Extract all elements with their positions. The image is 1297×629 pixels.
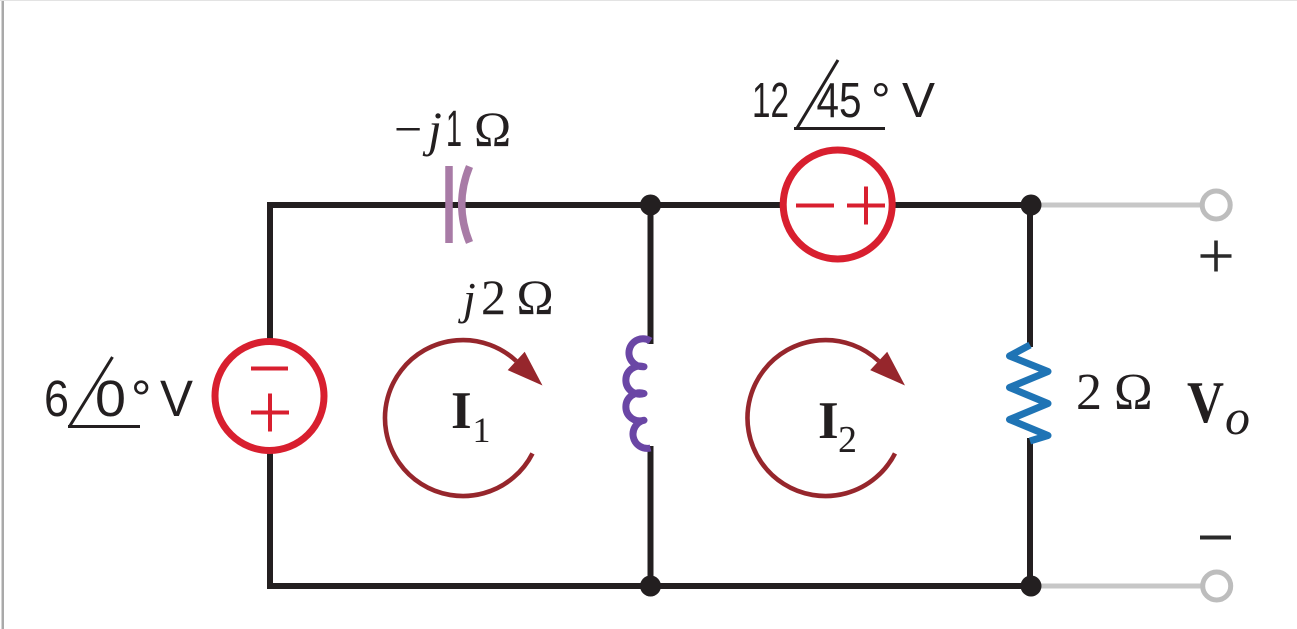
svg-text:−: −: [394, 101, 422, 157]
svg-text:1: 1: [446, 100, 462, 157]
svg-text:V: V: [160, 370, 193, 427]
mesh current I1 arrowhead: [508, 352, 543, 386]
V2 plus sign: [847, 187, 885, 225]
svg-text:45: 45: [817, 74, 862, 128]
voltage source V2 circle: [783, 150, 892, 259]
svg-text:Ω: Ω: [1114, 364, 1153, 421]
svg-text:V: V: [902, 74, 935, 128]
svg-text:0: 0: [95, 370, 126, 427]
angle symbol underline top: [794, 127, 885, 130]
svg-text:I: I: [818, 392, 839, 450]
mesh current I2 arrowhead: [870, 352, 905, 386]
gray output wire top: [1031, 203, 1201, 208]
capacitor C1 right plate arc: [462, 167, 470, 243]
inductor L1 coil: [626, 339, 651, 449]
svg-text:Ω: Ω: [474, 101, 511, 157]
V1 plus sign: [251, 394, 289, 432]
node dot top right: [1021, 195, 1042, 216]
wire left vertical: [267, 202, 273, 589]
angle symbol diagonal top: [797, 60, 839, 129]
svg-text:2: 2: [481, 269, 506, 325]
wire top: [267, 202, 1031, 208]
wire middle vertical lower: [648, 446, 654, 586]
terminal circle bottom: [1203, 572, 1231, 600]
mesh current I1 arc: [385, 340, 533, 496]
angle symbol underline: [68, 425, 140, 428]
svg-text:o: o: [1225, 389, 1250, 445]
wire right vertical lower: [1027, 438, 1033, 586]
svg-text:12: 12: [752, 74, 789, 128]
resistor R1 zigzag: [1010, 345, 1049, 441]
svg-text:V: V: [1187, 369, 1224, 435]
svg-text:1: 1: [473, 410, 491, 450]
page left border: [2, 0, 5, 629]
svg-text:I: I: [451, 382, 472, 440]
svg-text:°: °: [131, 370, 151, 427]
wire middle vertical upper: [648, 205, 654, 344]
svg-text:Ω: Ω: [517, 269, 554, 325]
svg-text:6: 6: [44, 370, 69, 427]
output minus sign: [1200, 536, 1231, 540]
svg-text:2: 2: [838, 419, 857, 461]
V2 minus sign: [796, 204, 834, 208]
svg-text:°: °: [871, 74, 891, 128]
output plus sign: [1201, 241, 1232, 272]
node dot top middle: [640, 195, 661, 216]
voltage source V1 circle: [215, 342, 324, 451]
node dot bottom middle: [640, 576, 661, 597]
terminal circle top: [1202, 191, 1230, 219]
angle symbol diagonal: [70, 357, 113, 427]
gray output wire bottom: [1031, 584, 1201, 589]
page top border: [0, 0, 1297, 1]
node dot bottom right: [1021, 576, 1042, 597]
V1 minus sign: [251, 367, 288, 371]
capacitor C1 left plate: [445, 166, 453, 243]
wire bottom: [267, 583, 1031, 589]
mesh current I2 arc: [747, 340, 895, 496]
svg-text:2: 2: [1076, 364, 1102, 421]
wire right vertical upper: [1027, 205, 1033, 347]
